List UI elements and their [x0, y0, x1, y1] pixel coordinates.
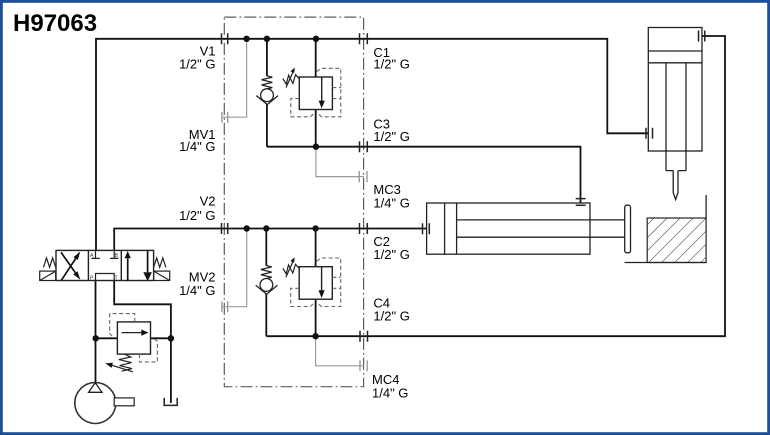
wire check valve CV1 stubs	[266, 39, 268, 147]
wire pilot MC3	[316, 147, 364, 177]
manifold boundary (dash-dot enclosure)	[224, 17, 363, 387]
port MV1 (grey)	[222, 112, 228, 123]
labels right side	[372, 45, 410, 401]
wire counterbalance CB1 stubs	[315, 39, 317, 147]
counterbalance valve CB2	[283, 257, 333, 299]
wire cylinder1 cap port to C4 line	[266, 36, 725, 336]
relief valve RV1 pilot dashes	[110, 314, 158, 362]
DV1 left spring	[44, 258, 56, 267]
wire T valve to tank	[114, 281, 171, 403]
svg-text:1/4" G: 1/4" G	[373, 196, 409, 211]
port MV2 (grey)	[222, 301, 228, 312]
wall line above load	[705, 195, 707, 218]
svg-text:B: B	[115, 253, 119, 259]
port MC4 (grey)	[360, 360, 367, 371]
labels left side	[179, 43, 215, 297]
relief valve RV1	[105, 322, 150, 372]
directional valve DV1 body	[56, 250, 154, 280]
DV1 port letters	[90, 253, 119, 282]
node junction dots	[93, 36, 320, 342]
svg-text:A: A	[90, 253, 94, 259]
tank T1	[164, 398, 177, 406]
wire relief valve branch right	[151, 337, 171, 339]
ground line under load	[625, 262, 707, 264]
svg-text:1/4" G: 1/4" G	[179, 283, 215, 298]
svg-text:1/2" G: 1/2" G	[179, 57, 215, 72]
DV1 left box crossed arrows	[61, 252, 80, 281]
wire pilot MV2	[222, 229, 247, 307]
wire pilot MV1	[222, 39, 247, 117]
svg-text:1/2" G: 1/2" G	[373, 247, 409, 262]
counterbalance CB2 pilot dashes	[291, 258, 341, 307]
wire relief valve branch left	[96, 337, 118, 339]
DV1 right spring	[154, 258, 166, 267]
counterbalance CB1 pilot dashes	[291, 68, 341, 117]
svg-text:1/2" G: 1/2" G	[179, 208, 215, 223]
svg-text:1/2" G: 1/2" G	[373, 308, 409, 323]
wire counterbalance CB2 stubs	[315, 229, 317, 337]
port cylinder2 cap-side	[576, 199, 586, 206]
port cylinder1 rod-side	[646, 128, 653, 139]
DV1 right box arrows	[125, 250, 152, 281]
svg-text:P: P	[90, 276, 94, 282]
svg-text:MC4: MC4	[372, 372, 399, 387]
wire check valve CV2 stubs	[265, 229, 267, 337]
port C1	[360, 33, 368, 44]
pump P1	[75, 383, 116, 424]
DV1 right solenoid	[154, 271, 170, 280]
svg-text:1/2" G: 1/2" G	[373, 129, 409, 144]
port V2	[222, 223, 228, 234]
wire P valve to pump	[95, 281, 97, 383]
svg-text:H97063: H97063	[13, 10, 97, 37]
port cylinder1 cap-side	[699, 31, 705, 42]
cylinder CYL1 (vertical)	[648, 28, 702, 200]
DV1 centre box blocked A,B and P-T link	[91, 250, 118, 280]
svg-text:V2: V2	[200, 193, 216, 208]
port C3	[360, 141, 368, 152]
pump shaft stub	[114, 398, 134, 406]
port MC3 (grey)	[359, 171, 367, 182]
wire C3 line to cylinder2 cap port	[267, 147, 581, 206]
svg-text:1/4" G: 1/4" G	[372, 386, 408, 401]
port C2	[360, 223, 368, 234]
check valve CV1	[256, 76, 278, 105]
DV1 left solenoid	[40, 271, 56, 280]
wire pilot MC4	[316, 336, 364, 366]
svg-text:1/4" G: 1/4" G	[179, 139, 215, 154]
pump flow triangle	[89, 383, 102, 393]
port C4	[360, 331, 368, 342]
wire valve-A to V1 to C1 to cylinder1 rod port	[96, 39, 648, 251]
check valve CV2	[256, 266, 278, 295]
port cylinder2 rod-side	[423, 223, 430, 234]
wire valve-B to V2 to C2 to cylinder2 rod port	[114, 229, 426, 251]
counterbalance valve CB1	[283, 68, 333, 110]
cylinder CYL2 (horizontal)	[427, 203, 625, 254]
svg-text:1/2" G: 1/2" G	[373, 57, 409, 72]
port V1	[222, 33, 228, 44]
CYL2 pusher flange	[625, 205, 631, 253]
